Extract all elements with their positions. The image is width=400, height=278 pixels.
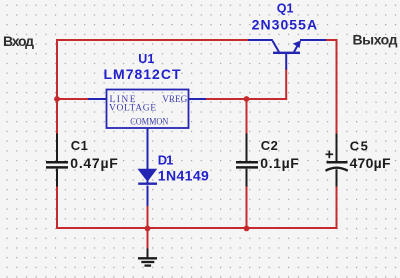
svg-text:VREG: VREG (162, 95, 187, 105)
wire: bottom ground rail (57, 186, 337, 228)
wire: U1 VREG output to Q1 base (206, 69, 286, 100)
diode D1 (137, 169, 157, 206)
svg-text:COMMON: COMMON (130, 118, 168, 128)
junction: input node at C1 branch (54, 96, 60, 102)
junction: ground node on bottom rail (145, 226, 151, 232)
capacitor C5 (polarized) (326, 134, 348, 187)
wire: top rail from input to Q1 collector (57, 40, 248, 134)
capacitor C1 (46, 134, 68, 187)
svg-text:Вход: Вход (3, 33, 34, 49)
svg-text:0.1µF: 0.1µF (260, 155, 299, 171)
svg-text:0.47µF: 0.47µF (70, 155, 118, 171)
capacitor C2 (236, 134, 258, 187)
svg-text:Выход: Выход (353, 32, 398, 48)
svg-text:2N3055A: 2N3055A (252, 17, 318, 33)
svg-text:470µF: 470µF (350, 155, 391, 171)
wire: C2 upper lead to VREG rail (246, 99, 248, 134)
svg-text:VOLTAGE: VOLTAGE (109, 104, 156, 114)
svg-text:LM7812CT: LM7812CT (104, 66, 181, 82)
junction: C2 node on bottom rail (244, 226, 250, 232)
svg-text:1N4149: 1N4149 (158, 167, 209, 183)
wire: Q1 emitter to output, down right side (326, 40, 337, 134)
junction: VREG node at C2 branch (244, 96, 250, 102)
transistor Q1 2N3055A (248, 40, 326, 70)
svg-text:D1: D1 (158, 153, 174, 168)
wire: input stub to U1 LINE pin (57, 98, 88, 100)
op-amp U1 LM7812CT regulator body (88, 90, 206, 170)
wire: stub from bottom rail to ground symbol (147, 228, 149, 249)
svg-text:C1: C1 (71, 138, 88, 153)
svg-text:Q1: Q1 (277, 1, 294, 15)
svg-text:U1: U1 (138, 52, 154, 66)
ground (138, 249, 157, 266)
svg-text:C5: C5 (350, 138, 368, 153)
svg-text:C2: C2 (261, 138, 278, 153)
wire: C2 lower lead to bottom rail (246, 186, 248, 228)
wire: D1 cathode lead to bottom rail (147, 206, 149, 228)
